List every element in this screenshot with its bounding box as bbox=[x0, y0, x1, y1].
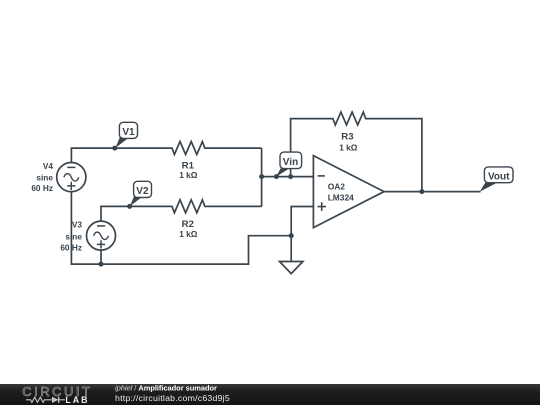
svg-text:60 Hz: 60 Hz bbox=[31, 183, 53, 193]
svg-text:V2: V2 bbox=[136, 186, 149, 197]
svg-text:V1: V1 bbox=[122, 127, 135, 138]
svg-text:V4: V4 bbox=[43, 161, 54, 171]
svg-text:1 kΩ: 1 kΩ bbox=[339, 143, 358, 153]
svg-text:LAB: LAB bbox=[65, 395, 89, 405]
svg-text:1 kΩ: 1 kΩ bbox=[179, 229, 198, 239]
svg-text:OA2: OA2 bbox=[328, 182, 346, 192]
svg-text:60 Hz: 60 Hz bbox=[60, 243, 82, 253]
svg-text:V3: V3 bbox=[72, 220, 83, 230]
svg-text:R3: R3 bbox=[341, 132, 353, 143]
svg-text:iphiel / Amplificador sumador: iphiel / Amplificador sumador bbox=[115, 384, 217, 393]
svg-text:1 kΩ: 1 kΩ bbox=[179, 170, 198, 180]
svg-text:sine: sine bbox=[36, 172, 53, 182]
svg-text:Vin: Vin bbox=[283, 157, 298, 168]
svg-text:sine: sine bbox=[65, 232, 82, 242]
svg-text:http://circuitlab.com/c63d9j5: http://circuitlab.com/c63d9j5 bbox=[115, 393, 230, 403]
svg-text:LM324: LM324 bbox=[328, 192, 354, 202]
svg-text:Vout: Vout bbox=[488, 171, 510, 182]
